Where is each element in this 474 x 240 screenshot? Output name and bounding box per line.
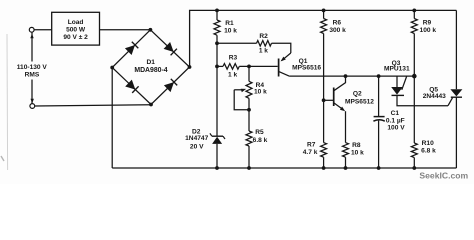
- wire: [413, 34, 415, 77]
- wire: [31, 32, 33, 61]
- Q2 emitter arrow: [340, 107, 345, 112]
- wire: [111, 68, 113, 169]
- wire: [190, 10, 457, 67]
- transistor Q1 base bar: [278, 59, 280, 77]
- wire: [345, 157, 347, 168]
- svg-text:D1: D1: [146, 59, 155, 66]
- svg-text:C1: C1: [391, 110, 400, 117]
- wire bottom rail: [112, 167, 456, 169]
- bridge D1 outline: [112, 30, 189, 105]
- node C1 junction: [377, 74, 381, 78]
- svg-text:2N4443: 2N4443: [423, 93, 446, 100]
- svg-text:100 k: 100 k: [420, 27, 437, 34]
- wire: [217, 42, 257, 44]
- label R9 100k: [420, 20, 437, 35]
- label R8 10k: [351, 142, 364, 157]
- node R2 branch junction: [215, 41, 219, 45]
- wire: [216, 35, 218, 136]
- wire: [248, 146, 250, 168]
- label Load 500W 90V: [63, 19, 88, 41]
- transistor Q2 base bar: [333, 88, 335, 107]
- wire Q2 base lead: [324, 99, 333, 101]
- wire: [31, 80, 33, 104]
- diode D1b (upper-right): [164, 42, 177, 55]
- Q2 collector lead: [334, 76, 346, 91]
- node bridge left vertex: [110, 66, 114, 70]
- capacitor C1: [373, 117, 384, 122]
- label R1 10k: [224, 20, 237, 35]
- node R3-R4 junction: [247, 65, 251, 69]
- resistor R6: [321, 19, 327, 34]
- node top-rail R9 junction: [412, 9, 416, 13]
- svg-text:10 k: 10 k: [224, 28, 237, 35]
- node AC-bottom terminal: [30, 104, 35, 109]
- Q1 emitter arrow: [281, 57, 286, 62]
- wire: [455, 10, 457, 89]
- wire: [413, 10, 415, 18]
- wire collector bus: [289, 75, 414, 77]
- svg-text:R7: R7: [307, 141, 316, 148]
- node bottom-rail R7 junction: [322, 166, 326, 170]
- resistor R4 (rheostat): [246, 81, 252, 98]
- wire: [378, 121, 380, 168]
- label R6 300k: [329, 20, 346, 35]
- resistor R2: [257, 41, 272, 47]
- resistor R7: [321, 143, 327, 158]
- diode D1d (lower-right): [164, 79, 177, 92]
- node bottom-rail R10 junction: [412, 166, 416, 170]
- PUT Q3 MPU131: [391, 87, 404, 95]
- svg-text:100 V: 100 V: [387, 124, 405, 131]
- wire: [323, 10, 325, 18]
- resistor R1: [214, 20, 220, 35]
- wire: [345, 111, 347, 142]
- svg-text:Load: Load: [68, 19, 84, 26]
- wire: [34, 29, 52, 31]
- label R2 1k: [259, 33, 268, 54]
- scan artifact line: [1, 34, 8, 170]
- node bottom-rail R5 junction: [247, 166, 251, 170]
- R4 wiper tie: [234, 90, 249, 110]
- wire arrow up: [30, 34, 33, 39]
- label 110-130 V RMS: [17, 64, 48, 79]
- svg-text:300 k: 300 k: [329, 27, 346, 34]
- label Q1 MPS6516: [292, 58, 321, 72]
- watermark SeekIC.com: [419, 171, 468, 181]
- wire: [216, 10, 218, 20]
- wire: [272, 43, 291, 53]
- svg-text:R6: R6: [333, 20, 342, 27]
- label R5 6.8k: [253, 129, 268, 144]
- svg-text:4.7 k: 4.7 k: [303, 149, 318, 156]
- resistor R10: [411, 143, 417, 158]
- node Q2 base junction: [322, 98, 326, 102]
- svg-text:R9: R9: [423, 20, 432, 27]
- label R4 10k: [254, 82, 267, 96]
- svg-text:10 k: 10 k: [351, 150, 364, 157]
- node R9-R10 junction: [412, 74, 417, 79]
- label R3 1k: [228, 55, 238, 79]
- node bridge right vertex: [188, 65, 192, 69]
- svg-text:MDA980-4: MDA980-4: [134, 67, 167, 74]
- node bottom-rail R8 junction: [344, 166, 348, 170]
- wire: [239, 65, 277, 67]
- wire: [100, 29, 151, 31]
- svg-text:6.8 k: 6.8 k: [421, 147, 436, 154]
- label Q2 MPS6512: [345, 90, 374, 105]
- svg-text:6.8 k: 6.8 k: [253, 137, 268, 144]
- svg-text:10 k: 10 k: [254, 89, 267, 96]
- svg-text:Q2: Q2: [353, 90, 362, 97]
- svg-text:MPS6512: MPS6512: [345, 98, 374, 105]
- svg-text:1 k: 1 k: [259, 47, 268, 54]
- wire: [378, 76, 380, 117]
- svg-text:1N4747: 1N4747: [185, 135, 208, 142]
- label Q3 MPU131: [384, 60, 410, 73]
- wire: [216, 144, 218, 168]
- wire Q1 emitter lead: [282, 53, 291, 61]
- wire: [413, 158, 415, 168]
- svg-text:1 k: 1 k: [228, 72, 237, 79]
- wire: [35, 105, 151, 106]
- Q3 anode lead: [396, 76, 398, 87]
- node bridge bottom vertex: [149, 103, 153, 107]
- resistor R3: [223, 64, 239, 70]
- label D1 MDA980-4: [134, 59, 167, 74]
- resistor R8: [343, 143, 349, 158]
- wire: [323, 157, 325, 168]
- svg-text:R5: R5: [255, 129, 264, 136]
- node top-rail R1 junction: [215, 9, 219, 13]
- R4 wiper arrow: [234, 89, 246, 93]
- wire Q5 gate lead: [448, 98, 453, 106]
- svg-text:90 V ± 2: 90 V ± 2: [63, 34, 88, 41]
- svg-text:20 V: 20 V: [190, 143, 204, 150]
- wire arrow down: [31, 99, 34, 104]
- wire: [248, 66, 250, 81]
- node R4 wiper junction: [247, 108, 251, 112]
- diode D1c (lower-left): [125, 80, 138, 93]
- svg-text:R8: R8: [352, 142, 361, 149]
- label R10 6.8k: [421, 140, 436, 155]
- node Q2 collector junction: [344, 74, 348, 78]
- wire: [455, 97, 457, 168]
- label R7 4.7k: [303, 141, 318, 155]
- svg-text:RMS: RMS: [25, 72, 40, 79]
- label D2 1N4747 20V: [185, 128, 208, 150]
- node bottom-rail C1 junction: [377, 166, 381, 170]
- svg-text:R3: R3: [229, 55, 238, 62]
- svg-text:R10: R10: [422, 140, 434, 147]
- wire: [217, 65, 223, 67]
- svg-text:MPU131: MPU131: [384, 65, 410, 72]
- node AC-top terminal: [29, 27, 34, 32]
- svg-text:MPS6516: MPS6516: [292, 65, 321, 72]
- svg-text:SeekIC.com: SeekIC.com: [419, 171, 468, 181]
- svg-text:110-130 V: 110-130 V: [17, 64, 48, 71]
- Q2 emitter lead: [334, 103, 343, 110]
- svg-text:R1: R1: [225, 20, 234, 27]
- svg-text:500 W: 500 W: [66, 26, 86, 33]
- zener D2 1N4747: [210, 133, 225, 144]
- load box: [52, 12, 100, 45]
- node top-rail R6 junction: [322, 9, 326, 13]
- label C1 0.1uF 100V: [386, 110, 405, 132]
- svg-text:R2: R2: [259, 33, 268, 40]
- resistor R9: [411, 19, 417, 34]
- node bridge top vertex: [149, 28, 153, 32]
- wire: [413, 76, 415, 143]
- Q3 gate lead: [402, 77, 407, 90]
- SCR Q5 2N4443: [450, 89, 462, 97]
- Q3 cathode lead: [397, 95, 448, 105]
- wire: [323, 34, 325, 143]
- wire: [248, 98, 250, 131]
- label Q5 2N4443: [423, 86, 446, 99]
- Q1 collector lead: [279, 71, 290, 76]
- node R3 branch junction: [215, 65, 219, 69]
- diode D1a (upper-left): [125, 42, 138, 55]
- resistor R5: [246, 131, 252, 146]
- node bottom-rail D2 junction: [215, 166, 219, 170]
